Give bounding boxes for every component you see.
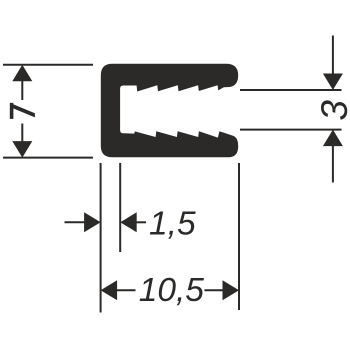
svg-text:10,5: 10,5 [139, 272, 205, 309]
svg-text:1,5: 1,5 [149, 205, 196, 242]
svg-text:3: 3 [314, 100, 350, 121]
